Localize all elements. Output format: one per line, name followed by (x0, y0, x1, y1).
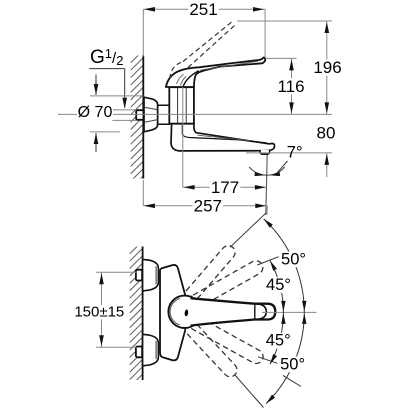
ray +45 deg extension / leader to top 50 label (257, 256, 279, 265)
temperature indicator dot (184, 309, 188, 316)
upper union nut (143, 259, 159, 291)
lever (front view, solid) (191, 298, 276, 325)
ray -45 deg extension / leader to bottom 50 label (258, 357, 278, 364)
dimension 177 (183, 186, 265, 188)
svg-text:177: 177 (211, 178, 239, 197)
G1/2 supply pipe stub (136, 110, 143, 120)
centerline vertical body axis (182, 87, 184, 187)
7 degree arc (249, 167, 285, 175)
svg-text:50°: 50° (280, 355, 305, 373)
centerline horizontal (side view) (58, 113, 78, 115)
7 degree leader and label (278, 161, 288, 172)
lever position +45 deg (dashed) (187, 258, 265, 310)
svg-text:196: 196 (313, 58, 341, 77)
dimension 80 (246, 152, 332, 154)
dimension diameter 70 (90, 95, 144, 97)
svg-text:251: 251 (189, 0, 217, 19)
lower union nut (143, 334, 159, 366)
label G 1/2 (89, 68, 124, 70)
ray +50 deg extension (230, 213, 266, 247)
arc dimension 50 deg (top) (264, 219, 305, 313)
water stream line (266, 154, 267, 214)
extension line raised lever top (237, 20, 332, 22)
svg-text:116: 116 (277, 77, 304, 96)
label 45 deg top (264, 277, 294, 293)
lever dome (front view) (168, 296, 200, 328)
faucet body (front view) (160, 265, 185, 360)
dimension 257 (143, 205, 265, 207)
dimension 150 +/- 15 (96, 271, 137, 273)
svg-text:7°: 7° (287, 144, 303, 162)
svg-text:50°: 50° (281, 250, 306, 268)
lower in-wall fitting (136, 347, 142, 358)
svg-text:257: 257 (194, 196, 222, 215)
dimension 116 (291, 58, 293, 114)
neck (side view) (158, 105, 170, 124)
spout inner contour lines (182, 124, 266, 143)
lever position -45 deg (dashed) (187, 314, 265, 366)
arc dimension 50 deg (bottom) (266, 312, 304, 403)
label 45 deg bottom (263, 333, 293, 349)
lever handle (side view) (166, 58, 265, 87)
lever position -50 deg (dashed) (182, 319, 239, 379)
lever position +50 deg (dashed) (182, 243, 238, 305)
ray -50 deg extension (235, 375, 264, 408)
svg-text:45°: 45° (266, 276, 291, 294)
wall line (front view) (142, 247, 144, 381)
dimension 196 (326, 21, 328, 114)
label 50 deg top (279, 252, 309, 268)
wire: wall extension line (142, 9, 144, 56)
raised lever (dashed) (170, 62, 183, 80)
arc dimension 45 deg (bottom) (270, 312, 283, 364)
svg-text:150±15: 150±15 (74, 304, 124, 321)
dimension 251 (264, 9, 266, 57)
upper in-wall fitting (136, 270, 142, 281)
svg-text:Ø 70: Ø 70 (78, 104, 113, 121)
centerline (front view) (262, 311, 317, 313)
aerator nub (260, 150, 270, 154)
extension line lever top (266, 57, 297, 59)
label 50 deg bottom (278, 357, 308, 373)
wall line (side view) (142, 56, 144, 179)
arc dimension 45 deg (top) (270, 261, 283, 313)
faucet body (side view) (169, 87, 194, 123)
spout (side view) (171, 124, 275, 151)
escutcheon flange (side view) (144, 97, 158, 132)
svg-text:80: 80 (317, 124, 336, 143)
lever cap seam (183, 71, 199, 87)
svg-text:45°: 45° (266, 332, 291, 350)
